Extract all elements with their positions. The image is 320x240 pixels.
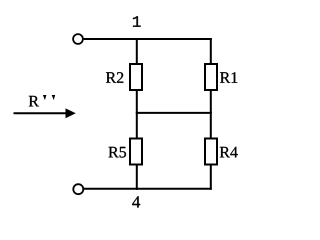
node 4 label — [132, 196, 140, 207]
wire: R2 bottom to middle node — [136, 90, 138, 139]
wire: middle horizontal between branches — [136, 112, 212, 114]
node 1 label — [133, 16, 141, 27]
wire: R1 bottom to middle node to R4 top — [210, 90, 212, 139]
resistor R5 — [109, 139, 143, 165]
terminal T4 (bottom-left open circle) — [73, 184, 83, 194]
resistor R1 — [205, 64, 237, 90]
wire: node 1 down to R2 top — [136, 38, 138, 64]
wire: right branch from top corner down to R1 top — [210, 38, 212, 64]
wire: top horizontal from T1 to node 1 to R1 branch — [84, 38, 212, 40]
wire: R4 bottom down to bottom rail — [210, 165, 212, 190]
wire: bottom horizontal from T4 terminal to right corner — [84, 188, 212, 190]
wire: R5 bottom to node 4 — [136, 165, 138, 191]
resistor R2 — [106, 64, 142, 90]
arrow: R'' direction arrow shaft — [14, 112, 68, 114]
terminal T1 (top-left open circle) — [73, 34, 83, 44]
resistor R4 — [205, 139, 238, 165]
arrow: R'' arrowhead — [66, 108, 76, 118]
label R'' (equivalent resistance) — [29, 95, 55, 106]
